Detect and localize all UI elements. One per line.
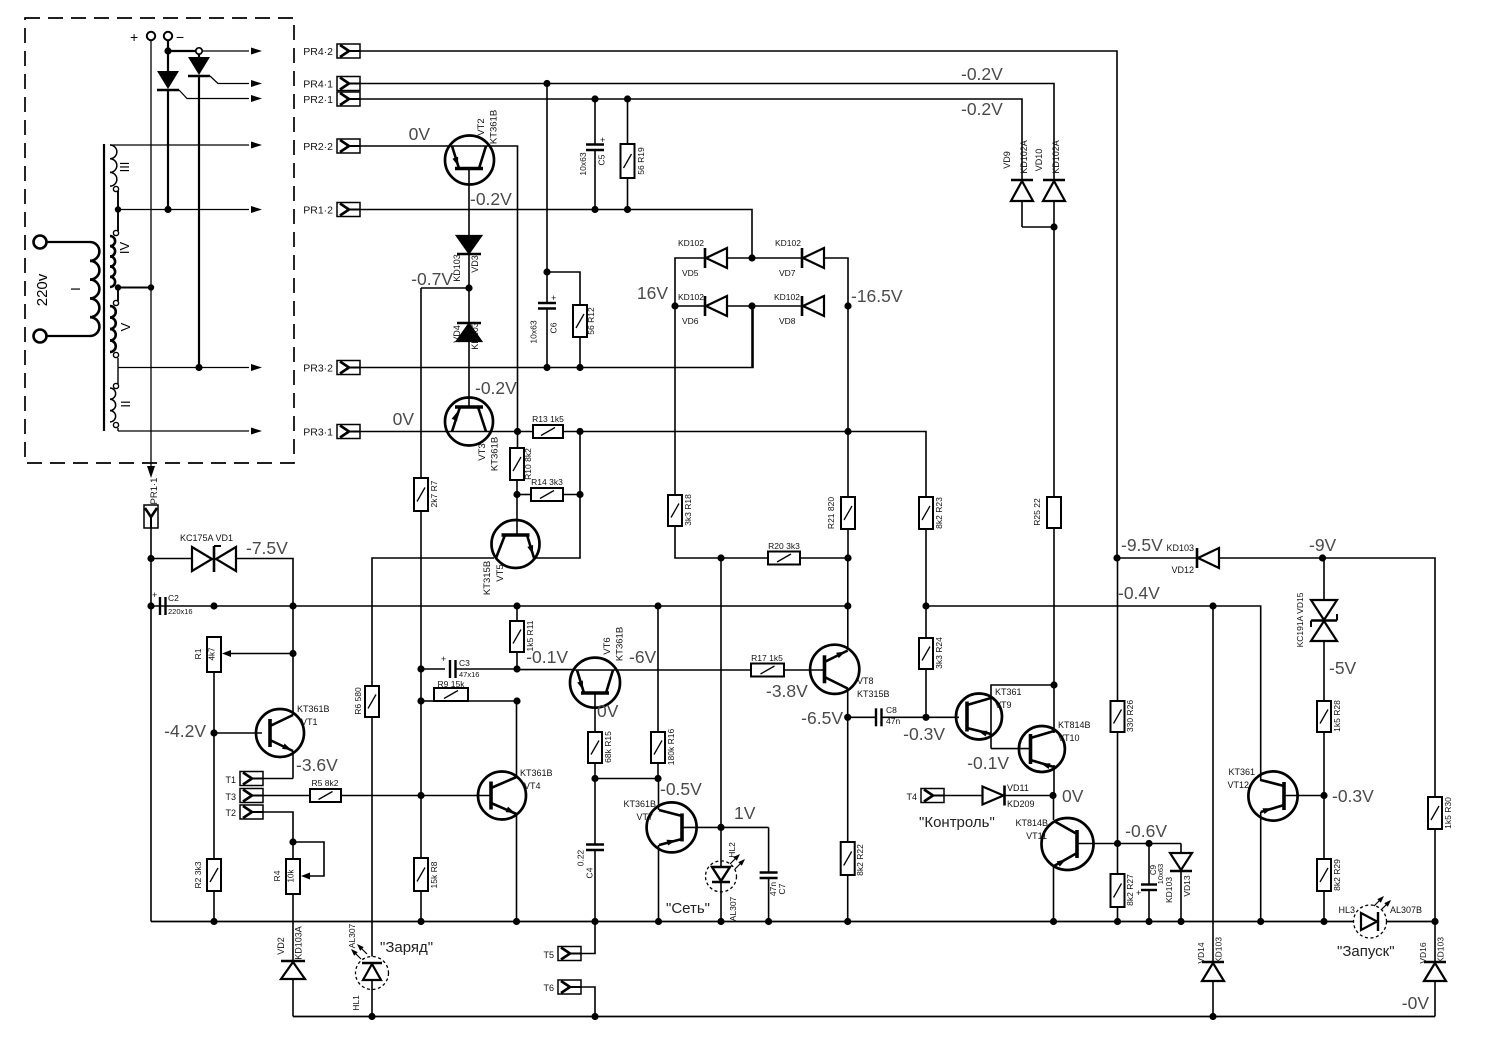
svg-text:0.22: 0.22 [576, 849, 586, 866]
resistor R25 [1032, 497, 1061, 685]
node x293 on rail [289, 602, 296, 609]
node -0.7V junction [465, 284, 472, 291]
svg-text:KD102: KD102 [775, 238, 801, 248]
resistor R14 [517, 477, 580, 501]
resistor R10 [510, 432, 533, 495]
svg-text:"Сеть": "Сеть" [666, 900, 710, 917]
svg-text:10x63: 10x63 [529, 320, 539, 343]
node -6.5V emitter [844, 714, 851, 721]
svg-text:C3: C3 [459, 658, 470, 668]
resistor R5 [310, 778, 341, 802]
svg-text:HL1: HL1 [351, 995, 361, 1011]
voltage 16V [637, 283, 668, 303]
transistor VT7 [623, 799, 696, 852]
voltage -7.5V [246, 538, 288, 558]
svg-text:-0.2V: -0.2V [961, 64, 1003, 84]
capacitor C6 [529, 293, 559, 368]
svg-text:VD9: VD9 [1002, 151, 1012, 169]
node R7 bottom on base wire [417, 792, 424, 799]
svg-text:KC191A VD15: KC191A VD15 [1295, 592, 1305, 647]
svg-text:IV: IV [117, 242, 132, 255]
voltage -0.2V below VT2 [470, 189, 512, 209]
svg-text:47x16: 47x16 [459, 670, 479, 679]
svg-text:R17 1k5: R17 1k5 [751, 653, 783, 663]
voltage -5V [1329, 658, 1357, 678]
svg-text:PR1·1: PR1·1 [149, 478, 160, 505]
svg-text:PR1·2: PR1·2 [303, 205, 333, 217]
transistor VT4 [478, 768, 553, 820]
svg-text:VD12: VD12 [1171, 565, 1194, 575]
wire VT8 emitter down [847, 689, 849, 718]
LED HL2 [706, 827, 747, 921]
wire R4 bottom to VD2 [292, 894, 294, 961]
svg-text:56 R12: 56 R12 [586, 307, 596, 335]
node R22 rail [844, 918, 851, 925]
svg-text:KT315B: KT315B [482, 561, 493, 595]
svg-text:VD14: VD14 [1196, 942, 1206, 964]
LED HL1 [347, 923, 389, 1010]
svg-text:KT361B: KT361B [489, 110, 500, 144]
capacitor C2 [152, 590, 193, 616]
wire VT5 collector left to R6 corner [372, 558, 494, 686]
wire bridge mid down [751, 306, 753, 368]
voltage 0V at PR3-1 [393, 409, 415, 429]
wire C3 to VT6 [517, 669, 573, 671]
svg-text:8k2 R23: 8k2 R23 [934, 497, 944, 529]
node R1 wiper [289, 650, 296, 657]
voltage -0.4V [1118, 583, 1160, 603]
wire PR1-2 line to bridge [360, 210, 752, 259]
primary terminal circles 220v [34, 236, 52, 343]
wire HL1 to bottom rail [371, 989, 373, 1017]
thyristor VS2 [188, 54, 210, 368]
wire VT9 emitter to VT10 base [991, 748, 1031, 750]
resistor R26 [1111, 558, 1136, 844]
svg-text:2k7 R7: 2k7 R7 [429, 480, 439, 507]
svg-text:+: + [130, 29, 138, 45]
terminal - (minus) [164, 29, 184, 45]
svg-text:KD103: KD103 [1436, 937, 1446, 963]
connector PR1.2 [303, 203, 360, 217]
node R10 bottom VT5 base [513, 491, 520, 498]
wire VT12 base [1284, 795, 1323, 797]
node C5 bottom [591, 206, 598, 213]
voltage 0V VD11 [1062, 786, 1084, 806]
wire HL2 column upper [720, 558, 722, 827]
node 16V [671, 302, 678, 309]
node rail end VT8 [844, 602, 851, 609]
transistor VT8 [810, 645, 889, 699]
wire T3 to R5 [263, 795, 310, 797]
node C6 branch on PR4-1 [543, 80, 550, 87]
resistor R13 [532, 414, 564, 438]
resistor R17 [751, 653, 784, 677]
svg-text:VD16: VD16 [1418, 942, 1428, 964]
voltage -3.8V [766, 681, 808, 701]
connector T3 [225, 789, 263, 803]
svg-text:0V: 0V [393, 409, 415, 429]
wire T1 to VT1 emitter [263, 778, 293, 780]
connector PR2.1 [303, 92, 360, 106]
connector PR4.2 [303, 44, 360, 58]
node VS1 cathode on winding tap [164, 206, 171, 213]
node C5 top [591, 95, 598, 102]
node C6 top [543, 268, 550, 275]
svg-text:PR4·1: PR4·1 [303, 79, 333, 91]
voltage 0V at VT2 [409, 124, 431, 144]
text Kontrol [919, 814, 995, 831]
wire VD3 to node [468, 254, 470, 288]
wire tap III-IV [117, 191, 119, 231]
diode VD16 [1418, 922, 1446, 1017]
arrow down to PR1-1 [147, 463, 155, 478]
svg-text:KT361B: KT361B [615, 627, 626, 661]
wire winding III top to PR2-2 arrow [110, 142, 262, 149]
svg-text:"Заряд": "Заряд" [380, 939, 433, 956]
svg-text:HL2: HL2 [727, 842, 737, 858]
svg-text:KD103A: KD103A [294, 926, 304, 960]
resistor R16 [651, 606, 676, 779]
svg-text:KT361B: KT361B [490, 437, 501, 471]
svg-text:4k7: 4k7 [208, 647, 217, 660]
capacitor C4 [576, 779, 605, 922]
svg-text:VT7: VT7 [636, 812, 653, 822]
svg-text:V: V [118, 322, 133, 331]
node R29 rail [1320, 918, 1327, 925]
node R16 bottom [654, 775, 661, 782]
winding IV [110, 230, 132, 287]
voltage -0.2V lower [961, 99, 1003, 119]
voltage -6.5V [801, 708, 843, 728]
node rail start [147, 602, 154, 609]
resistor R12 [573, 305, 596, 368]
resistor R27 [1111, 844, 1136, 922]
svg-text:+: + [600, 135, 605, 145]
svg-text:R25 22: R25 22 [1032, 498, 1042, 526]
node tap IV-V [115, 284, 121, 290]
wire VD12 to -9V [1219, 557, 1323, 559]
gate wire VS1 to PR2-1 arrow [179, 90, 262, 102]
wire VD6 to VD8 [727, 305, 802, 307]
node R24 bottom C8 [922, 714, 929, 721]
svg-text:-0.3V: -0.3V [1332, 786, 1374, 806]
node VS2 cathode on winding tap [195, 364, 202, 371]
capacitor C8 [848, 705, 959, 726]
node top minus junction [164, 47, 171, 54]
wire PR4-2 to top right corner [360, 51, 1117, 558]
diode VD8 [774, 292, 824, 326]
svg-text:KC175A VD1: KC175A VD1 [180, 533, 233, 543]
svg-text:+: + [152, 590, 157, 600]
wire VT10 emitter down [1053, 765, 1055, 796]
svg-text:R13 1k5: R13 1k5 [532, 414, 564, 424]
svg-text:III: III [117, 162, 132, 173]
svg-text:-9V: -9V [1309, 535, 1337, 555]
diode VD5 [678, 238, 727, 278]
voltage -4.2V [164, 721, 206, 741]
wire C6 top to R12 [547, 272, 580, 305]
wire VT12 emitter down [1260, 812, 1262, 922]
node R21 column on PR3-1 [844, 428, 851, 435]
node R1 top [210, 602, 217, 609]
node HL2 rail [717, 918, 724, 925]
voltage -9V [1309, 535, 1337, 555]
svg-text:R9 15k: R9 15k [438, 679, 466, 689]
node T6 bottom rail [591, 1013, 598, 1020]
svg-text:KD103: KD103 [1164, 877, 1174, 903]
voltage -0V [1402, 993, 1430, 1013]
winding I (primary) [47, 242, 100, 336]
node R30 rail [1431, 918, 1438, 925]
wire VT11 emitter down [1053, 866, 1055, 922]
svg-text:-7.5V: -7.5V [246, 538, 288, 558]
capacitor C5 [578, 99, 607, 210]
node R13 right [576, 428, 583, 435]
svg-text:VD3: VD3 [470, 255, 480, 273]
svg-text:-0.1V: -0.1V [526, 647, 568, 667]
svg-text:R20 3k3: R20 3k3 [768, 541, 800, 551]
svg-text:-3.8V: -3.8V [766, 681, 808, 701]
voltage 1V [734, 803, 756, 823]
wire VD7 right corner [824, 258, 848, 306]
diode VD2 [276, 926, 305, 1016]
node VT7 emitter rail [655, 918, 662, 925]
svg-text:PR3·1: PR3·1 [303, 427, 333, 439]
svg-text:-16.5V: -16.5V [851, 286, 903, 306]
winding II [110, 383, 133, 427]
svg-text:VD10: VD10 [1034, 149, 1044, 172]
svg-text:KD103: KD103 [1214, 937, 1224, 963]
svg-text:1V: 1V [734, 803, 756, 823]
svg-text:KD102: KD102 [678, 292, 704, 302]
svg-text:1k5 R30: 1k5 R30 [1443, 797, 1453, 829]
voltage 0V below VT6 [597, 701, 619, 721]
voltage -0.3V at C8 [903, 724, 945, 744]
wire VT7 collector up [658, 779, 660, 811]
node VD14 -0.4V rail [1209, 602, 1216, 609]
svg-text:-6.5V: -6.5V [801, 708, 843, 728]
node C9 top [1145, 840, 1152, 847]
svg-text:VT11: VT11 [1026, 831, 1047, 841]
svg-text:8k2 R27: 8k2 R27 [1125, 874, 1135, 906]
svg-text:-0V: -0V [1402, 993, 1430, 1013]
svg-text:PR2·2: PR2·2 [303, 141, 333, 153]
wire tap IV-V to plus line [118, 287, 151, 289]
node -0.3V [1320, 792, 1327, 799]
svg-text:C7: C7 [777, 883, 787, 894]
svg-text:PR3·2: PR3·2 [303, 363, 333, 375]
wire T4 to VD11 [944, 795, 984, 797]
svg-text:-0.2V: -0.2V [475, 378, 517, 398]
svg-text:"Контроль": "Контроль" [919, 814, 995, 831]
svg-text:AL307B: AL307B [1390, 905, 1422, 915]
text Set (mains) [666, 900, 710, 917]
svg-text:T5: T5 [543, 950, 554, 960]
wire VT1 collector up [292, 606, 294, 715]
svg-text:8k2 R29: 8k2 R29 [1332, 859, 1342, 891]
svg-text:T3: T3 [225, 792, 236, 802]
diode VD4 [452, 288, 481, 350]
wire minus node to VS2 anode [168, 48, 202, 54]
diode VD9 [1002, 140, 1033, 227]
wire VD10 node down to R25 [1053, 227, 1055, 497]
svg-text:C6: C6 [549, 322, 559, 333]
voltage -0.2V above VT3 [475, 378, 517, 398]
resistor R8 [414, 796, 439, 922]
svg-text:+: + [551, 293, 556, 303]
svg-text:KT361B: KT361B [520, 768, 553, 778]
wire rail HL3 right [1387, 921, 1436, 923]
svg-text:+: + [1136, 888, 1141, 898]
node R9 left [417, 697, 424, 704]
svg-text:C5: C5 [597, 154, 607, 165]
rail -0.4V right [926, 606, 1261, 781]
potentiometer R4 [272, 842, 324, 894]
wire VT4 emitter down [516, 814, 518, 922]
svg-text:R21 820: R21 820 [826, 497, 836, 529]
svg-text:VD13: VD13 [1182, 875, 1192, 897]
node C3 right [513, 665, 520, 672]
transistor VT9 [956, 687, 1022, 740]
resistor R20 [768, 541, 848, 565]
node R14 right [576, 491, 583, 498]
wire - terminal down [167, 40, 169, 51]
voltage -6V [629, 647, 657, 667]
svg-text:-0.5V: -0.5V [660, 779, 702, 799]
node R11 top [513, 602, 520, 609]
diode VD11 [983, 783, 1054, 809]
wire VD9 anode to VD10 line [1022, 226, 1054, 228]
diode VD13 [1164, 844, 1192, 922]
capacitor C9 [1136, 844, 1165, 922]
svg-text:10x63: 10x63 [578, 152, 588, 175]
svg-text:VD4: VD4 [452, 325, 462, 343]
svg-text:VT9: VT9 [995, 700, 1012, 710]
node C6 bottom [543, 364, 550, 371]
node R15 bottom [591, 775, 598, 782]
text Zapusk [1337, 943, 1395, 960]
svg-text:KT814B: KT814B [1058, 720, 1091, 730]
node -9.5V [1113, 554, 1120, 561]
svg-text:0V: 0V [597, 701, 619, 721]
svg-text:-0.4V: -0.4V [1118, 583, 1160, 603]
wire R1 bottom [213, 672, 215, 733]
svg-text:330 R26: 330 R26 [1125, 700, 1135, 732]
svg-text:KD102A: KD102A [1051, 140, 1061, 174]
svg-text:KT361B: KT361B [623, 799, 656, 809]
svg-text:C2: C2 [168, 593, 179, 603]
connector T1 [225, 772, 263, 786]
node R19 bottom [624, 206, 631, 213]
svg-text:VT5: VT5 [495, 564, 506, 581]
node -16.5V [844, 302, 851, 309]
wire VT11 base to -0.6V [1077, 843, 1181, 845]
rail -7.5V horizontal [151, 605, 848, 607]
svg-text:0V: 0V [1062, 786, 1084, 806]
svg-text:I: I [68, 287, 83, 291]
voltage -9.5V [1121, 535, 1163, 555]
resistor R7 [414, 288, 439, 796]
node -4.2V [210, 729, 217, 736]
svg-text:KT361: KT361 [995, 687, 1022, 697]
svg-text:-0.6V: -0.6V [1125, 821, 1167, 841]
rail bottom [293, 1016, 1435, 1018]
wire -0.7V node to R7 [421, 287, 469, 289]
svg-text:220v: 220v [34, 273, 51, 306]
node R9 right [513, 697, 520, 704]
wire PR2-1 to VD9 [360, 99, 1022, 180]
connector T2 [225, 805, 263, 819]
wire tap V to PR3-2 arrow [118, 364, 262, 371]
svg-text:VD11: VD11 [1007, 783, 1029, 793]
wire VD4 to VT3 base [468, 341, 470, 407]
terminal + (plus) [130, 29, 155, 45]
wire VT6 collector to VT8 base [573, 669, 825, 671]
svg-text:VT10: VT10 [1058, 733, 1080, 743]
resistor R30 [1428, 797, 1453, 922]
svg-text:3k3 R18: 3k3 R18 [683, 494, 693, 526]
resistor R11 [510, 606, 535, 669]
text Zaryad [380, 939, 433, 956]
svg-text:VT12: VT12 [1227, 780, 1249, 790]
zener VD1 KS175A [180, 533, 236, 572]
voltage -0.7V [411, 269, 453, 289]
svg-text:HL3: HL3 [1338, 905, 1355, 915]
voltage -0.5V [660, 779, 702, 799]
node HL2 top [717, 824, 724, 831]
svg-text:-6V: -6V [629, 647, 657, 667]
node VT11 rail [1050, 918, 1057, 925]
connector PR3.2 [303, 361, 360, 375]
svg-text:-0.1V: -0.1V [967, 753, 1009, 773]
transistor VT6 [570, 627, 626, 708]
connector T5 [543, 922, 595, 961]
svg-text:VD6: VD6 [682, 316, 699, 326]
node tap III-IV [115, 206, 121, 212]
diode VD3 [452, 236, 481, 282]
connector T6 [543, 980, 595, 1017]
node C3 left [417, 665, 424, 672]
wire VS2 top output arrow [202, 48, 262, 55]
connector PR2.2 [303, 139, 360, 153]
svg-text:R10 8k2: R10 8k2 [523, 448, 533, 480]
svg-text:KD103: KD103 [470, 322, 480, 350]
voltage -0.6V [1125, 821, 1167, 841]
wire base VT1 [214, 732, 262, 734]
svg-text:VT1: VT1 [301, 717, 318, 727]
svg-text:KT361: KT361 [1228, 767, 1255, 777]
diode VD6 [678, 292, 727, 326]
svg-text:−: − [176, 29, 184, 45]
voltage -0.1V VT10 [967, 753, 1009, 773]
svg-text:-0.3V: -0.3V [903, 724, 945, 744]
node VT4 emitter rail [513, 918, 520, 925]
voltage -0.3V VT12 [1332, 786, 1374, 806]
svg-text:T1: T1 [225, 775, 236, 785]
capacitor C3 [421, 654, 517, 679]
resistor R9 [421, 679, 517, 701]
svg-text:16V: 16V [637, 283, 668, 303]
svg-text:-9.5V: -9.5V [1121, 535, 1163, 555]
svg-text:R5 8k2: R5 8k2 [312, 778, 339, 788]
wire T2 to R4 [263, 812, 293, 842]
svg-text:C4: C4 [585, 867, 595, 878]
svg-text:KD102A: KD102A [1019, 140, 1029, 174]
rail common bottom [151, 921, 1354, 923]
resistor R2 [193, 733, 221, 891]
wire R2 bottom [213, 891, 215, 922]
wire VT1 emitter down to T1 [292, 751, 294, 779]
